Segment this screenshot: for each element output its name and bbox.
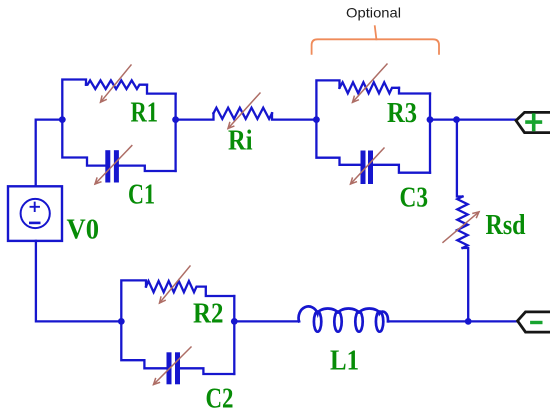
resistor R1 xyxy=(62,80,175,120)
adjustment arrow for R3 xyxy=(353,64,388,102)
adjustment arrow for Rsd xyxy=(443,212,479,243)
svg-text:R3: R3 xyxy=(387,98,417,129)
wire V0 bottom to lower rail xyxy=(36,241,121,322)
orange brace under Optional xyxy=(312,26,439,54)
capacitor C3 xyxy=(316,120,430,182)
svg-text:V0: V0 xyxy=(67,214,100,245)
svg-text:C2: C2 xyxy=(206,384,234,415)
resistor Ri xyxy=(176,108,317,120)
svg-text:C3: C3 xyxy=(400,182,429,213)
adjustment arrow for Ri xyxy=(228,93,260,129)
wire from node G to inductor xyxy=(234,320,299,322)
wire right side of R2C2 block xyxy=(233,296,235,374)
svg-text:L1: L1 xyxy=(330,346,359,377)
node D (right of R3C3) xyxy=(427,116,434,123)
output terminal minus xyxy=(518,312,550,332)
node F (left of R2C2) xyxy=(118,318,125,325)
wire right side of R1C1 block xyxy=(174,94,176,171)
output terminal plus xyxy=(516,112,550,132)
adjustment arrow for C3 xyxy=(351,148,385,184)
node G (right of R2C2) xyxy=(231,318,238,325)
voltage source V0 xyxy=(8,186,62,241)
wire from node H to minus terminal xyxy=(468,320,517,322)
wire from node D to output node xyxy=(430,118,457,120)
node A (left of R1C1) xyxy=(59,116,66,123)
resistor Rsd xyxy=(457,120,468,322)
wire top rail from R1 node to V0 xyxy=(36,120,63,187)
svg-text:Rsd: Rsd xyxy=(486,210,526,241)
minus symbol xyxy=(532,321,541,324)
adjustment arrow for C2 xyxy=(154,347,192,385)
capacitor C2 xyxy=(121,321,234,381)
resistor R2 xyxy=(121,280,234,321)
resistor R3 xyxy=(316,80,430,119)
wire right side of R3C3 block xyxy=(429,94,431,173)
svg-text:C1: C1 xyxy=(128,180,155,211)
svg-text:R2: R2 xyxy=(193,298,224,329)
wire from inductor to node H xyxy=(388,320,468,322)
adjustment arrow for C1 xyxy=(95,146,132,184)
svg-text:R1: R1 xyxy=(131,98,159,129)
svg-text:Ri: Ri xyxy=(228,125,253,156)
node B (right of R1C1) xyxy=(172,116,179,123)
plus symbol xyxy=(527,115,540,130)
svg-text:Optional: Optional xyxy=(346,5,401,21)
node E (output branch) xyxy=(453,116,460,123)
inductor L1 xyxy=(299,306,388,331)
adjustment arrow for R2 xyxy=(160,266,191,303)
node H (bottom right) xyxy=(465,318,472,325)
adjustment arrow for R1 xyxy=(101,65,132,102)
capacitor C1 xyxy=(62,120,175,180)
node C (left of R3C3) xyxy=(313,116,320,123)
wire from node E to plus terminal xyxy=(457,118,517,120)
